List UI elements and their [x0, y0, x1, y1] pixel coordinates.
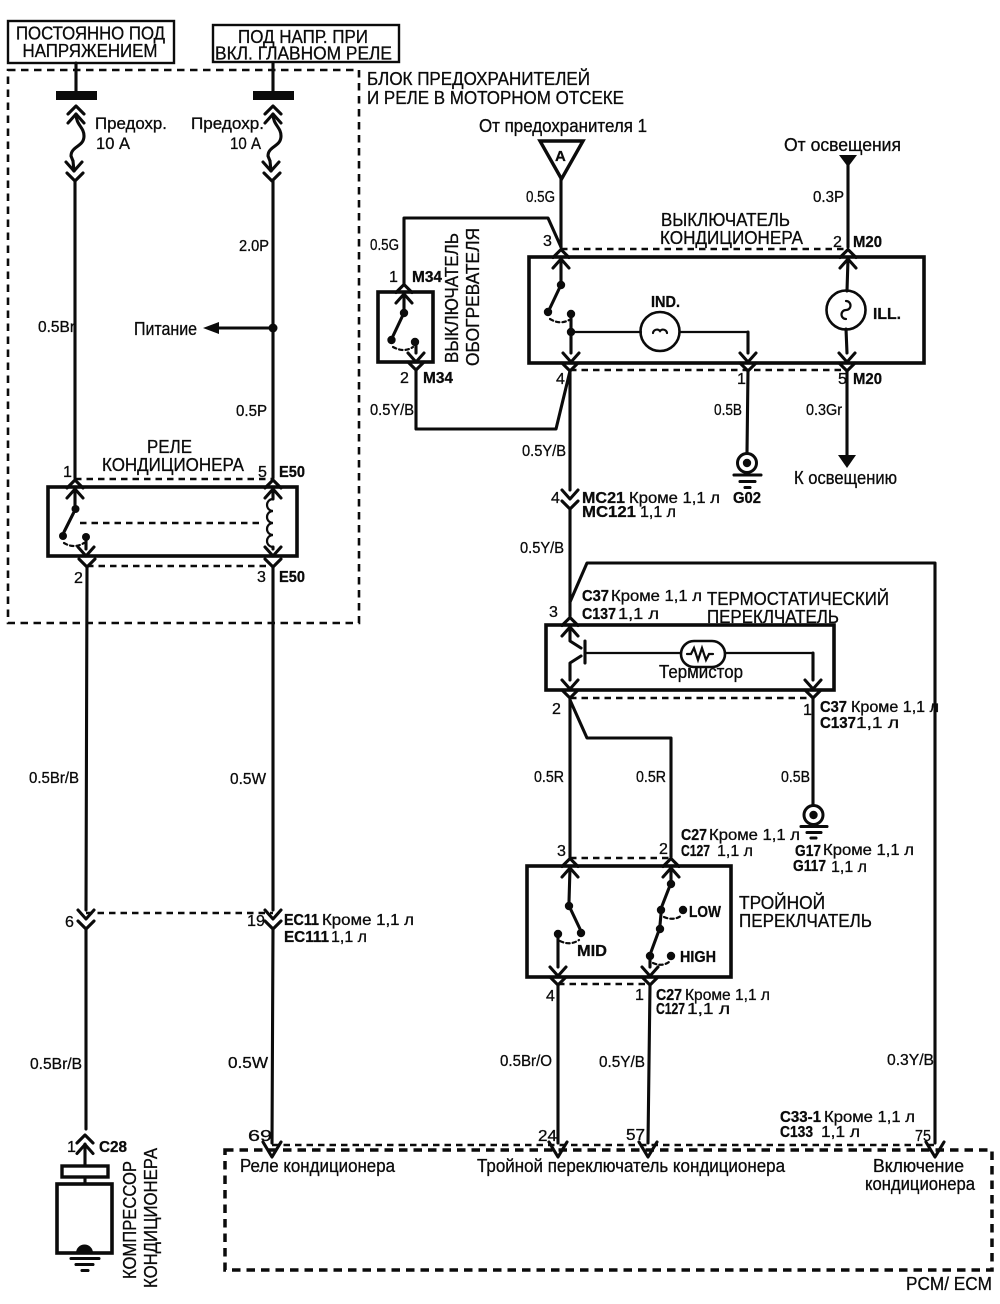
wire: plate to compressor body	[83, 1177, 86, 1184]
connector MC21 pin 4 arrows	[562, 490, 578, 509]
svg-text:С37: С37	[582, 588, 609, 605]
svg-text:69: 69	[248, 1128, 272, 1145]
svg-text:С28: С28	[99, 1139, 127, 1156]
ground G17 symbol	[801, 806, 827, 839]
svg-text:3: 3	[557, 843, 566, 860]
fuse F1 (Предохр. 10 А) symbol	[66, 106, 84, 181]
svg-text:Кроме 1,1 л: Кроме 1,1 л	[823, 842, 914, 859]
svg-text:1: 1	[635, 987, 644, 1004]
connector E50 dashed link (top row)	[75, 478, 273, 480]
wire 0.3P: lighting feed to A/C switch pin 2	[846, 163, 849, 247]
A/C switch pin 4 internal arrow	[563, 336, 579, 362]
wire 0.5R: branch from pin 2 to C27 pin 2	[570, 700, 671, 857]
svg-text:КОНДИЦИОНЕРА: КОНДИЦИОНЕРА	[102, 455, 244, 475]
svg-text:КОМПРЕССОР: КОМПРЕССОР	[120, 1161, 140, 1279]
connector label EC11 Кроме 1,1 л / EC111 1,1 л	[284, 912, 414, 946]
heater switch caption: ВЫКЛЮЧАТЕЛЬ ОБОГРЕВАТЕЛЯ (vertical)	[442, 228, 483, 366]
svg-text:НАПРЯЖЕНИЕМ: НАПРЯЖЕНИЕМ	[23, 41, 158, 61]
wire 0.5B: A/C switch pin 1 to ground G02	[747, 371, 748, 453]
svg-text:4: 4	[551, 490, 560, 507]
wire 0.5Br: fuse F1 to relay pin 1	[73, 181, 76, 478]
wire 0.5R: thermo pin 2 down to C27 pin 3	[568, 698, 571, 857]
triple switch caption: ТРОЙНОЙ ПЕРЕКЛЧАТЕЛЬ	[739, 892, 872, 931]
junction node on F2 wire (Питание tap)	[269, 324, 278, 333]
thermo switch contact (bimetal)	[562, 627, 585, 689]
svg-text:С127: С127	[656, 1001, 685, 1018]
svg-text:19: 19	[247, 913, 265, 930]
svg-text:0.5P: 0.5P	[236, 403, 267, 420]
svg-text:0.3Y/B: 0.3Y/B	[887, 1052, 934, 1069]
svg-text:1: 1	[389, 269, 398, 286]
svg-text:0.5Y/B: 0.5Y/B	[522, 443, 566, 460]
svg-text:ВКЛ. ГЛАВНОМ РЕЛЕ: ВКЛ. ГЛАВНОМ РЕЛЕ	[215, 44, 392, 64]
A/C switch caption: ВЫКЛЮЧАТЕЛЬ КОНДИЦИОНЕРА	[660, 210, 803, 248]
svg-text:РЕЛЕ: РЕЛЕ	[147, 437, 192, 457]
svg-text:0.5Y/B: 0.5Y/B	[520, 540, 564, 557]
svg-text:0.5Y/B: 0.5Y/B	[599, 1054, 645, 1071]
svg-text:С27: С27	[681, 827, 707, 844]
lamp ILL. (illumination)	[827, 259, 902, 362]
heater switch body box	[378, 292, 433, 362]
svg-text:Е50: Е50	[279, 464, 305, 481]
svg-text:75: 75	[915, 1128, 931, 1145]
svg-text:С127: С127	[681, 843, 710, 860]
connector chevron C27 pin 1	[642, 977, 658, 985]
fuse F2 (Предохр. 10 А) symbol	[263, 106, 281, 181]
connector chevron C27 pin 2	[663, 859, 679, 867]
wire 0.5W: relay pin 3 down to EC11	[271, 567, 274, 910]
wire 0.3Y/B: node at pin 3 to PCM pin 75	[570, 563, 935, 1143]
bus bar node at fuse F2	[253, 91, 294, 100]
arrow to lighting circuit	[838, 455, 856, 468]
compressor clutch coil plate	[62, 1166, 108, 1177]
ground (compressor case)	[71, 1245, 99, 1271]
svg-text:2: 2	[552, 701, 561, 718]
svg-text:MID: MID	[577, 943, 607, 960]
svg-text:ILL.: ILL.	[873, 306, 901, 323]
heater switch contact	[387, 294, 424, 362]
feed arrow from lighting circuit	[839, 155, 857, 167]
engine-compartment fuse/relay block dashed outline	[8, 70, 359, 623]
svg-text:LOW: LOW	[689, 904, 722, 921]
svg-text:ЕС11: ЕС11	[284, 912, 319, 929]
relay K1 caption: РЕЛЕ КОНДИЦИОНЕРА	[102, 437, 244, 475]
svg-text:0.5Br/B: 0.5Br/B	[29, 770, 79, 787]
svg-text:1,1 л: 1,1 л	[618, 606, 659, 623]
PCM connector dashed link row	[272, 1144, 935, 1146]
svg-text:0.5B: 0.5B	[714, 402, 742, 419]
svg-text:0.3Gr: 0.3Gr	[806, 402, 843, 419]
svg-text:Е50: Е50	[279, 569, 305, 586]
svg-text:М34: М34	[423, 370, 453, 387]
wire 0.5Br/B: relay pin 2 down to EC11	[86, 567, 87, 910]
connector chevron pin 2	[79, 559, 95, 567]
wire 0.5Br/O: triple switch pin 4 to PCM pin 24	[556, 985, 559, 1143]
svg-text:М20: М20	[853, 234, 882, 251]
connector chevron thermo pin 2	[562, 690, 578, 698]
relay K1 body box	[48, 487, 297, 556]
connector EC11/EC111 dashed link row	[86, 912, 273, 914]
svg-text:М34: М34	[412, 269, 442, 286]
svg-text:10 А: 10 А	[96, 134, 131, 153]
wire 0.5B: thermo pin 1 to ground G17	[811, 698, 814, 805]
svg-text:G117: G117	[793, 858, 826, 875]
connector C27 dashed link (top row)	[570, 857, 671, 859]
relay internal dashed mechanical link	[80, 522, 263, 524]
power rail label box: ПОД НАПР. ПРИ ВКЛ. ГЛАВНОМ РЕЛЕ	[213, 25, 399, 64]
svg-text:0.5W: 0.5W	[230, 771, 267, 788]
feed triangle A (from fuse 1)	[540, 141, 583, 179]
svg-text:0.5R: 0.5R	[534, 769, 564, 786]
svg-text:М20: М20	[853, 371, 882, 388]
wire: junction to Питание arrow	[217, 326, 273, 329]
svg-text:1: 1	[737, 371, 746, 388]
svg-text:КОНДИЦИОНЕРА: КОНДИЦИОНЕРА	[141, 1148, 161, 1288]
compressor caption: КОМПРЕССОР КОНДИЦИОНЕРА (vertical)	[120, 1148, 161, 1288]
connector chevron pin 3	[265, 559, 281, 567]
wire 0.5W: EC11 down to PCM pin 69	[272, 929, 273, 1143]
wire 0.5G: triangle A down to A/C switch pin 3	[559, 179, 562, 247]
svg-text:ТРОЙНОЙ: ТРОЙНОЙ	[739, 892, 825, 913]
svg-text:6: 6	[65, 914, 74, 931]
svg-text:С133: С133	[780, 1124, 813, 1141]
svg-text:0.5Br: 0.5Br	[38, 319, 76, 336]
svg-text:G02: G02	[733, 490, 761, 507]
svg-text:КОНДИЦИОНЕРА: КОНДИЦИОНЕРА	[660, 228, 803, 248]
PCM/ECM module dashed box	[225, 1150, 992, 1270]
triple switch MID contact	[550, 868, 585, 976]
connector chevron PCM pin 69	[263, 1142, 281, 1157]
svg-text:0.5Br/O: 0.5Br/O	[500, 1053, 552, 1070]
svg-text:Термистор: Термистор	[659, 662, 743, 682]
thermistor R1 (Термистор)	[585, 641, 821, 689]
PCM output label: Включение кондиционера	[865, 1156, 976, 1194]
wire: left rail down to fuse F1	[74, 63, 77, 92]
connector EC11 pin 19 arrows	[265, 910, 281, 929]
svg-text:0.5B: 0.5B	[781, 769, 810, 786]
svg-text:МС121: МС121	[582, 504, 636, 521]
connector label C27 Кроме 1,1 л / C127 1,1 л (bottom)	[656, 987, 770, 1018]
svg-text:57: 57	[626, 1127, 645, 1144]
svg-text:1,1 л: 1,1 л	[640, 504, 676, 521]
caption: БЛОК ПРЕДОХРАНИТЕЛЕЙ И РЕЛЕ В МОТОРНОМ ОТСЕКЕ	[367, 68, 624, 108]
value label: Предохр. 10 А (F1)	[95, 114, 167, 153]
svg-text:Включение: Включение	[873, 1156, 964, 1176]
svg-text:Кроме 1,1 л: Кроме 1,1 л	[851, 699, 939, 716]
svg-text:1,1 л: 1,1 л	[331, 929, 367, 946]
triple switch body box	[527, 866, 731, 977]
svg-text:0.5R: 0.5R	[636, 769, 666, 786]
svg-text:4: 4	[556, 371, 565, 388]
ground G02 symbol	[734, 454, 761, 488]
svg-text:0.5Y/B: 0.5Y/B	[370, 402, 414, 419]
triple switch LOW/HIGH contacts	[642, 868, 687, 976]
power rail label box: ПОСТОЯННО ПОД НАПРЯЖЕНИЕМ	[8, 21, 174, 63]
connector label C37 Кроме 1,1 л / C137 1,1 л (bottom)	[820, 699, 939, 732]
wire 0.5G: branch to heater switch pin 1	[404, 218, 561, 284]
connector chevron PCM pin 75	[926, 1142, 944, 1157]
connector M20 dashed link (top row)	[561, 248, 848, 250]
svg-text:Предохр.: Предохр.	[95, 114, 167, 133]
svg-text:1,1 л: 1,1 л	[687, 1001, 730, 1018]
svg-text:Питание: Питание	[134, 319, 197, 339]
connector chevron A/C pin 3	[553, 250, 569, 258]
thermostatic switch caption: ТЕРМОСТАТИЧЕСКИЙ ПЕРЕКЛЧАТЕЛЬ	[707, 588, 889, 627]
svg-text:2: 2	[74, 570, 83, 587]
svg-text:С37: С37	[820, 699, 847, 716]
connector chevron A/C pin 5	[839, 363, 855, 371]
connector chevron M34 pin 2	[408, 362, 424, 370]
connector chevron PCM pin 57	[639, 1142, 657, 1157]
svg-text:0.5G: 0.5G	[526, 189, 555, 206]
lamp IND. (indicator)	[571, 294, 756, 362]
connector chevron C27 pin 3	[562, 859, 578, 867]
A/C switch body box	[529, 257, 924, 363]
svg-text:2: 2	[400, 370, 409, 387]
connector chevron C27 pin 4	[550, 977, 566, 985]
svg-text:А: А	[555, 148, 566, 165]
connector chevron A/C pin 1	[740, 363, 756, 371]
svg-text:ТЕРМОСТАТИЧЕСКИЙ: ТЕРМОСТАТИЧЕСКИЙ	[707, 588, 889, 609]
svg-text:От освещения: От освещения	[784, 135, 901, 155]
A/C switch contact	[544, 259, 575, 336]
svg-text:1,1 л: 1,1 л	[831, 859, 867, 876]
connector label C33-1 Кроме 1,1 л / C133 1,1 л	[780, 1109, 915, 1141]
svg-text:ОБОГРЕВАТЕЛЯ: ОБОГРЕВАТЕЛЯ	[463, 228, 483, 366]
svg-text:0.5W: 0.5W	[228, 1055, 269, 1072]
ground label G17 Кроме 1,1 л / G117 1,1 л	[793, 842, 914, 876]
svg-text:1: 1	[67, 1139, 76, 1156]
wire 2.0P/0.5P: fuse F2 to relay pin 5	[271, 181, 274, 478]
svg-text:0.5Br/B: 0.5Br/B	[30, 1056, 82, 1073]
svg-text:IND.: IND.	[651, 294, 680, 311]
value label: Предохр. 10 А (F2)	[191, 114, 264, 153]
svg-text:3: 3	[257, 569, 266, 586]
compressor M1 body box	[57, 1184, 112, 1253]
connector chevron A/C pin 2	[840, 250, 856, 258]
svg-text:0.5G: 0.5G	[370, 237, 399, 254]
thermostatic switch body box	[546, 625, 834, 690]
svg-text:Реле кондиционера: Реле кондиционера	[240, 1156, 396, 1176]
svg-text:Кроме 1,1 л: Кроме 1,1 л	[322, 912, 414, 929]
wire 0.3Gr: A/C switch pin 5 to lighting	[845, 371, 848, 456]
svg-text:0.3P: 0.3P	[813, 189, 844, 206]
svg-text:10 А: 10 А	[230, 134, 262, 153]
svg-text:Предохр.: Предохр.	[191, 114, 264, 133]
connector chevron A/C pin 4	[562, 363, 578, 371]
svg-text:1,1 л: 1,1 л	[717, 843, 753, 860]
connector chevron M34 pin 1	[396, 285, 412, 293]
wire 0.5Y/B: A/C switch pin 4 down to MC21	[568, 371, 571, 490]
svg-text:ВЫКЛЮЧАТЕЛЬ: ВЫКЛЮЧАТЕЛЬ	[661, 210, 790, 230]
svg-text:4: 4	[546, 988, 555, 1005]
svg-text:БЛОК ПРЕДОХРАНИТЕЛЕЙ: БЛОК ПРЕДОХРАНИТЕЛЕЙ	[367, 68, 590, 89]
svg-text:Кроме 1,1 л: Кроме 1,1 л	[611, 588, 702, 605]
connector C27 dashed link (bottom row)	[558, 983, 650, 985]
wire 0.5Br/B: EC11 down to compressor C28	[84, 929, 87, 1129]
svg-text:С137: С137	[820, 715, 856, 732]
svg-text:С137: С137	[582, 606, 616, 623]
connector E50 dashed link (bottom row)	[87, 565, 273, 567]
svg-text:1: 1	[803, 702, 812, 719]
svg-text:От предохранителя 1: От предохранителя 1	[479, 116, 647, 136]
svg-text:PCM/ ECM: PCM/ ECM	[906, 1274, 992, 1294]
connector chevron pin 1	[67, 480, 83, 488]
svg-text:Тройной переключатель кондицио: Тройной переключатель кондиционера	[477, 1156, 786, 1176]
wire: right rail down to fuse F2	[271, 63, 274, 92]
svg-text:ЕС111: ЕС111	[284, 929, 329, 946]
svg-text:К освещению: К освещению	[794, 468, 897, 488]
svg-text:2.0P: 2.0P	[239, 238, 269, 255]
connector chevron PCM pin 24	[549, 1142, 567, 1157]
svg-text:3: 3	[543, 233, 552, 250]
wire 0.5Y/B: triple switch pin 1 to PCM pin 57	[648, 985, 650, 1143]
svg-text:1: 1	[63, 464, 72, 481]
wire 0.5Y/B: MC21 down to thermo switch pin 3	[568, 509, 571, 616]
connector C37 dashed link (bottom row)	[570, 697, 813, 699]
connector label C37 Кроме 1,1 л / C137 1,1 л (top)	[582, 588, 702, 623]
svg-text:2: 2	[659, 841, 668, 858]
connector chevron thermo pin 1	[805, 690, 821, 698]
connector chevron pin 5	[265, 480, 281, 488]
connector M20 dashed link (bottom row)	[570, 369, 847, 371]
connector label C27 Кроме 1,1 л / C127 1,1 л (top)	[681, 827, 800, 860]
svg-text:ВЫКЛЮЧАТЕЛЬ: ВЫКЛЮЧАТЕЛЬ	[442, 233, 462, 363]
relay K1 coil	[265, 489, 281, 556]
relay K1 switch contact	[59, 489, 94, 556]
arrow to power feed (Питание)	[203, 322, 219, 334]
connector EC11 pin 6 arrows	[78, 910, 94, 929]
svg-text:кондиционера: кондиционера	[865, 1174, 976, 1194]
svg-text:HIGH: HIGH	[680, 949, 716, 966]
connector C28 pin 1 arrows	[77, 1135, 93, 1166]
wire 0.5Y/B: M34 pin 2 to A/C switch pin 4	[416, 370, 570, 429]
svg-text:1,1 л: 1,1 л	[856, 715, 899, 732]
svg-text:3: 3	[549, 604, 558, 621]
svg-text:1,1 л: 1,1 л	[821, 1124, 860, 1141]
svg-text:И РЕЛЕ В МОТОРНОМ ОТСЕКЕ: И РЕЛЕ В МОТОРНОМ ОТСЕКЕ	[367, 88, 624, 108]
connector label MC21 Кроме 1,1 л / MC121 1,1 л	[582, 490, 720, 521]
connector chevron thermo pin 3	[562, 618, 578, 626]
svg-text:ПЕРЕКЛЧАТЕЛЬ: ПЕРЕКЛЧАТЕЛЬ	[739, 911, 872, 931]
bus bar node at fuse F1	[56, 91, 97, 100]
svg-text:Кроме 1,1 л: Кроме 1,1 л	[709, 827, 800, 844]
